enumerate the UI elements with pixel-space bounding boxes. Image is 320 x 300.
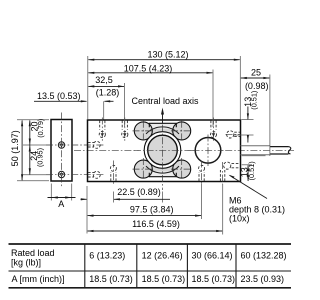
svg-text:[kg (lb)]: [kg (lb)]: [11, 258, 41, 268]
plate hole centerline upper: [46, 144, 104, 146]
kidney outer arc top: [146, 127, 179, 134]
dimension 24 (0.95): [29, 145, 45, 175]
corner lobe bottom-left: [134, 160, 152, 178]
svg-text:(0.79): (0.79): [36, 119, 45, 138]
svg-text:32,5: 32,5: [95, 75, 113, 85]
hidden right face hole lower: [224, 162, 240, 169]
main horizontal centerline: [74, 149, 294, 151]
svg-text:(10x): (10x): [229, 214, 250, 224]
through hole right: [193, 135, 224, 167]
load button circle: [148, 135, 178, 165]
end-view plate outline: [51, 120, 72, 182]
dimension 22.5 (0.89): [81, 187, 171, 203]
groove white ring: [146, 134, 179, 167]
dimension 97.5 (3.84): [87, 184, 202, 234]
white side crescent left: [139, 133, 150, 168]
hidden top slot 1: [99, 118, 105, 142]
flexure gray core disc: [140, 127, 186, 173]
svg-text:18.5 (0.73): 18.5 (0.73): [142, 274, 186, 284]
hidden bottom slot 3: [220, 162, 224, 184]
svg-text:22.5 (0.89): 22.5 (0.89): [117, 187, 161, 197]
plate hole lower: [58, 171, 64, 177]
plate hole upper: [58, 142, 64, 148]
svg-text:130 (5.12): 130 (5.12): [147, 50, 188, 60]
hidden bottom slot 1: [110, 161, 116, 185]
table row 1: [11, 248, 287, 268]
corner lobe bottom-right: [173, 160, 191, 178]
corner lobe top-right: [173, 122, 191, 140]
svg-text:107.5 (4.23): 107.5 (4.23): [124, 63, 173, 73]
plate vertical centerline: [61, 113, 63, 189]
flexure vertical centerline: [162, 112, 164, 190]
dimension 50 (1.97): [10, 120, 49, 181]
dimension 25 (0.98): [240, 68, 270, 157]
dimension 32,5 (1.28): [88, 75, 125, 127]
kidney outer arc bottom: [146, 166, 179, 173]
table row 2: [12, 274, 285, 284]
svg-text:(0.95): (0.95): [36, 148, 45, 167]
dimension 130 (5.12): [88, 50, 241, 119]
svg-text:6 (13.23): 6 (13.23): [89, 251, 125, 261]
table: [9, 244, 292, 288]
flexure horizontal centerline: [134, 149, 192, 151]
plate hole centerline lower: [46, 174, 104, 176]
svg-text:50 (1.97): 50 (1.97): [10, 130, 20, 166]
hidden top slot 2: [122, 118, 128, 142]
svg-text:18.5 (0.73): 18.5 (0.73): [89, 274, 133, 284]
hidden top slot 3: [211, 118, 217, 142]
svg-text:30 (66.14): 30 (66.14): [192, 251, 233, 261]
hidden right face hole upper: [226, 131, 241, 138]
svg-text:60 (132.28): 60 (132.28): [241, 251, 287, 261]
svg-text:Central load axis: Central load axis: [132, 96, 200, 106]
dimension 116.5 (4.59): [87, 184, 223, 235]
svg-text:97.5 (3.84): 97.5 (3.84): [130, 204, 174, 214]
dimension 20 (0.79): [23, 119, 50, 175]
hidden left face hole upper: [88, 141, 100, 148]
hidden bottom slot 2: [199, 161, 205, 185]
svg-text:13.5 (0.53): 13.5 (0.53): [37, 91, 81, 101]
svg-text:25: 25: [251, 68, 261, 78]
white side crescent right: [175, 133, 186, 168]
dimension 13.5 (0.53): [34, 91, 114, 120]
svg-text:(0.51): (0.51): [249, 91, 258, 110]
svg-text:12 (26.46): 12 (26.46): [142, 251, 183, 261]
svg-text:116.5 (4.59): 116.5 (4.59): [132, 219, 180, 229]
dimension 13 (0.51) bottom right: [240, 156, 266, 182]
svg-text:A: A: [58, 199, 64, 209]
M6 label: [229, 196, 285, 224]
svg-text:A [mm (inch)]: A [mm (inch)]: [12, 274, 65, 284]
M6 leader: [229, 175, 267, 199]
lobe crosshairs: [133, 121, 193, 179]
groove outer edge: [144, 132, 181, 169]
dimension A: [48, 184, 76, 209]
dimension 107.5 (4.23): [88, 63, 213, 127]
bridge bar bottom outline: [149, 173, 176, 177]
bridge bar bottom fill: [149, 171, 177, 176]
bridge bar top outline: [149, 123, 176, 127]
svg-text:23.5 (0.93): 23.5 (0.93): [241, 274, 285, 284]
corner lobe top-left: [134, 122, 152, 140]
cable bush: [241, 146, 271, 155]
svg-text:(0.98): (0.98): [245, 81, 269, 91]
bridge bar top fill: [149, 123, 177, 128]
dimension 13 (0.51) top right: [234, 91, 259, 143]
svg-text:(1.28): (1.28): [96, 87, 120, 97]
hidden left face hole lower: [88, 171, 100, 178]
svg-text:Rated load: Rated load: [11, 248, 55, 258]
cable: [270, 147, 291, 154]
svg-text:18.5 (0.73): 18.5 (0.73): [192, 274, 236, 284]
central load axis label: [132, 96, 200, 123]
body outline: [88, 120, 241, 182]
svg-text:(0.51): (0.51): [247, 161, 256, 180]
